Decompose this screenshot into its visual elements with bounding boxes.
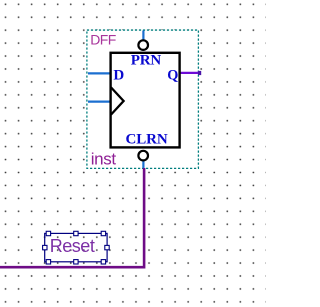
Q output stub wire bbox=[181, 72, 200, 74]
flip-flop U1 body bbox=[111, 53, 180, 148]
wire net from CLRN bubble down and left to Reset bbox=[0, 168, 144, 267]
svg-text:CLRN: CLRN bbox=[126, 131, 168, 147]
selection handle bottom-right bbox=[101, 260, 105, 264]
selection handle bottom-middle bbox=[74, 260, 78, 264]
svg-text:Q: Q bbox=[167, 67, 178, 83]
svg-text:D: D bbox=[113, 67, 124, 83]
selection handle middle-right bbox=[105, 245, 109, 249]
selection handle top-middle bbox=[74, 231, 78, 235]
selection handle top-right bbox=[101, 231, 105, 235]
clock chevron bbox=[111, 87, 124, 114]
CLRN clear stub wire bbox=[142, 161, 144, 169]
svg-text:DFF: DFF bbox=[90, 31, 115, 47]
svg-text:PRN: PRN bbox=[131, 53, 162, 69]
Q stub arrow tip bbox=[198, 71, 201, 75]
input pin Reset body bbox=[45, 233, 107, 261]
pin D input stub wire bbox=[88, 72, 111, 74]
selection handle middle-left bbox=[43, 245, 47, 249]
CLRN clear bubble bbox=[138, 151, 148, 161]
selection box around flip-flop U1 bbox=[87, 30, 198, 168]
selection handle bottom-left bbox=[46, 260, 50, 264]
svg-text:Reset: Reset bbox=[50, 236, 95, 256]
selection handle top-left bbox=[46, 231, 50, 235]
clock input stub wire bbox=[88, 100, 111, 102]
PRN preset bubble bbox=[138, 40, 148, 50]
svg-text:inst: inst bbox=[91, 149, 117, 168]
PRN preset stub wire bbox=[142, 31, 144, 40]
